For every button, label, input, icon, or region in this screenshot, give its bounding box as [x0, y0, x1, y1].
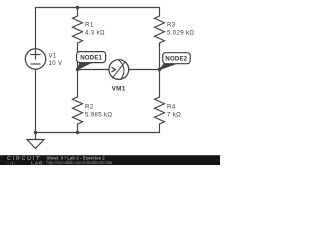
svg-text:5.029 kΩ: 5.029 kΩ: [167, 29, 194, 36]
svg-text:NODE2: NODE2: [165, 56, 187, 63]
svg-text:4.3 kΩ: 4.3 kΩ: [85, 29, 105, 36]
svg-text:R1: R1: [85, 22, 94, 29]
svg-text:R4: R4: [167, 104, 176, 111]
svg-text:~-|-: ~-|-: [7, 160, 17, 165]
svg-text:LAB: LAB: [31, 160, 43, 165]
svg-text:VM1: VM1: [112, 85, 126, 92]
svg-text:R3: R3: [167, 22, 176, 29]
svg-text:7 kΩ: 7 kΩ: [167, 112, 181, 119]
svg-text:10 V: 10 V: [49, 60, 64, 67]
svg-text:V1: V1: [49, 53, 57, 60]
svg-text:NODE1: NODE1: [80, 55, 102, 62]
svg-text:R2: R2: [85, 104, 94, 111]
svg-text:http://circuitlab.com/c/62d6e2: http://circuitlab.com/c/62d6e22c26a: [47, 160, 114, 165]
svg-text:5.985 kΩ: 5.985 kΩ: [85, 112, 112, 119]
